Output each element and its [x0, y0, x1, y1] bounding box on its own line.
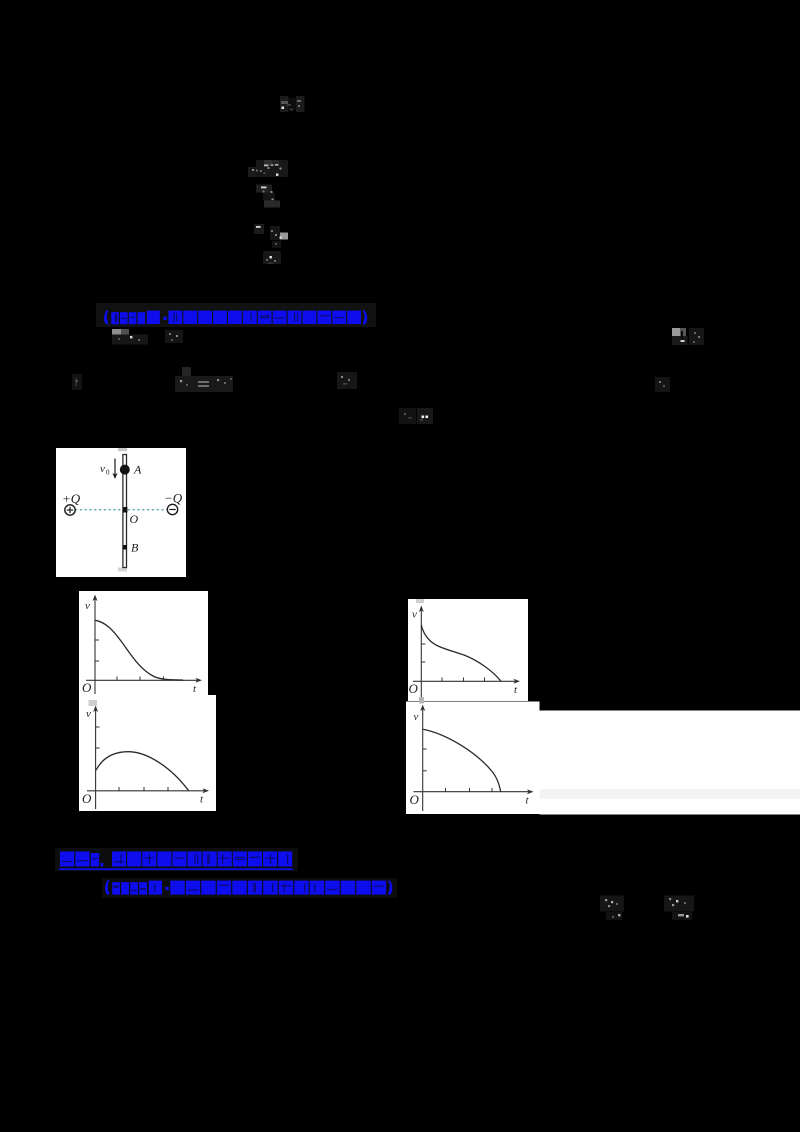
- halo band behind source line: [102, 878, 397, 898]
- equation blob M1 (faint formulas under heading, left): [108, 325, 188, 349]
- charge -Q circle: [167, 504, 177, 514]
- svg-text:O: O: [409, 681, 419, 696]
- figure: rod with two charges (white image box): [56, 448, 186, 577]
- svg-text:A: A: [133, 463, 142, 477]
- equation blob M2 (faint +Q formula, right): [668, 324, 708, 350]
- svg-text:O: O: [130, 512, 139, 526]
- svg-text:0: 0: [106, 469, 110, 477]
- gray tab top: [419, 697, 424, 704]
- svg-text:O: O: [82, 791, 92, 806]
- equation blob E2 (faint stacked fraction): [253, 182, 283, 210]
- svg-text:v: v: [412, 609, 417, 621]
- point B square: [123, 545, 127, 550]
- halo band behind section heading: [55, 848, 298, 871]
- axis ticks: [95, 639, 99, 641]
- charge +Q circle: [65, 505, 75, 515]
- v-t curve: [421, 625, 501, 681]
- faint gray band inside white area: [539, 789, 800, 799]
- blue problem heading line 1 (bold blue Chinese text, simulated): [100, 306, 375, 328]
- t axis: [86, 679, 197, 681]
- blue section heading line (underlined, simulated bold Chinese): [54, 846, 299, 874]
- svg-text:v: v: [100, 463, 105, 475]
- equation blob R2 (faint equation with = sign): [172, 364, 246, 396]
- t axis: [413, 680, 515, 682]
- v-t curve: [95, 620, 183, 680]
- axis ticks: [422, 748, 426, 750]
- t axis: [87, 790, 204, 792]
- v-t curve (arch): [96, 752, 189, 791]
- t axis: [413, 791, 528, 793]
- rod (vertical tube): [123, 455, 127, 568]
- v axis: [94, 599, 96, 694]
- dashed midline: [75, 509, 168, 511]
- svg-text:−Q: −Q: [164, 491, 183, 506]
- gray tab below rod: [118, 568, 127, 572]
- svg-text:O: O: [409, 792, 419, 807]
- v axis: [420, 610, 422, 700]
- equation blob E4 (faint formula): [262, 249, 284, 267]
- svg-text:O: O: [82, 680, 92, 695]
- point O square: [123, 507, 127, 513]
- v axis: [421, 709, 423, 811]
- equation blob E1 (faint formula line): [246, 157, 292, 179]
- blue source line (parenthesised, simulated bold Chinese): [100, 875, 400, 901]
- svg-text:+Q: +Q: [62, 491, 81, 506]
- v axis: [95, 710, 97, 809]
- graph C (v-t arch curve) white box: [79, 695, 216, 811]
- svg-text:v: v: [85, 600, 90, 612]
- equation blob R1 (faint, line 3 left): [69, 370, 87, 394]
- gray tab top: [89, 700, 98, 706]
- ball A on rod: [120, 465, 130, 475]
- v-t curve (quarter arc): [423, 729, 501, 792]
- graph A (v-t curve, S-shaped decay) white box: [79, 591, 208, 695]
- gray tab top: [416, 599, 424, 603]
- axis ticks: [421, 643, 425, 645]
- equation blob E0 (faint formula image, top): [262, 86, 312, 118]
- gray tab above rod: [118, 448, 127, 451]
- equation blob R5 (faint, with two bright dots): [396, 404, 436, 430]
- v0 arrow: [114, 459, 116, 475]
- graph D (v-t concave-down decay) wide white box: [406, 696, 800, 815]
- graph B (v-t curve, fast-slow-fast decay) white box: [408, 599, 528, 701]
- equation blob R3 (faint): [334, 368, 360, 394]
- svg-text:B: B: [131, 541, 139, 555]
- svg-text:v: v: [413, 711, 418, 723]
- halo band behind problem heading: [96, 303, 376, 327]
- equation blob Q1 (faint, below source line): [596, 892, 630, 924]
- equation blob E3 (faint formula with light square): [246, 222, 290, 250]
- equation blob R4 (faint, right): [652, 374, 674, 396]
- svg-text:v: v: [86, 708, 91, 720]
- axis ticks: [96, 726, 100, 728]
- equation blob Q2 (faint, below source line right): [660, 892, 700, 924]
